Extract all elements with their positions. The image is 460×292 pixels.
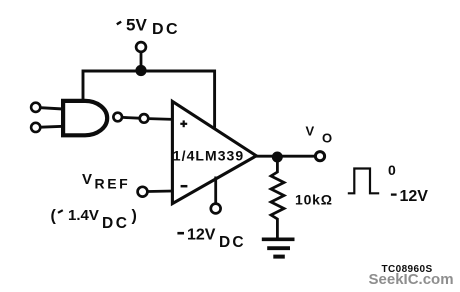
node output junction: [272, 152, 283, 163]
svg-text:REF: REF: [95, 176, 131, 192]
op-amp + sign: [180, 120, 187, 127]
waveform pulse: [348, 169, 379, 194]
svg-text:1/4LM339: 1/4LM339: [173, 148, 244, 164]
svg-text:12V: 12V: [187, 227, 216, 244]
label 10k ohm: [295, 192, 333, 208]
resistor R1 10k: [271, 157, 284, 238]
node junction on +5V rail: [135, 65, 146, 76]
NAND gate input terminal 2: [31, 123, 40, 132]
svg-text:12V: 12V: [400, 188, 429, 205]
svg-text:1.4V: 1.4V: [68, 207, 99, 224]
ground: [262, 239, 295, 256]
NAND gate U1 body: [63, 101, 107, 135]
terminal +5VDC: [136, 42, 146, 52]
label (+1.4VDC): [51, 207, 137, 232]
terminal circle after gate: [140, 114, 149, 123]
label -12VDC: [177, 227, 245, 251]
svg-text:): ): [132, 208, 137, 225]
label VREF: [82, 171, 130, 191]
svg-text:O: O: [322, 130, 332, 145]
wire op-amp output: [256, 155, 315, 158]
wire bubble to terminal: [122, 116, 139, 120]
svg-text:DC: DC: [219, 234, 246, 251]
NAND gate output bubble: [113, 113, 122, 122]
svg-text:DC: DC: [102, 215, 129, 232]
svg-text:V: V: [82, 171, 92, 188]
wire input 1: [41, 108, 64, 109]
svg-text:DC: DC: [152, 21, 180, 38]
wire +5V rail horizontal: [83, 71, 215, 128]
op-amp V- terminal: [211, 204, 221, 214]
label +5VDC: [117, 16, 180, 38]
op-amp U2 1/4LM339 triangle: [172, 101, 256, 203]
svg-text:5V: 5V: [126, 16, 147, 35]
svg-text:0: 0: [388, 162, 396, 178]
wire op-amp V- supply: [214, 177, 217, 204]
wire input 2: [41, 125, 64, 129]
output terminal VO: [315, 152, 324, 161]
svg-text:V: V: [306, 124, 315, 139]
wire gate output to op-amp + input: [149, 117, 173, 121]
op-amp - sign: [181, 185, 188, 188]
svg-text:10kΩ: 10kΩ: [295, 192, 333, 208]
wire VREF to op-amp - input: [148, 190, 173, 193]
VREF terminal: [138, 187, 148, 197]
label -12V: [391, 188, 428, 205]
svg-text:SeekIC.com: SeekIC.com: [369, 271, 454, 288]
wire terminal to junction: [140, 53, 143, 71]
NAND gate input terminal 1: [31, 103, 40, 112]
label VO: [306, 124, 333, 146]
svg-text:(: (: [51, 208, 57, 225]
